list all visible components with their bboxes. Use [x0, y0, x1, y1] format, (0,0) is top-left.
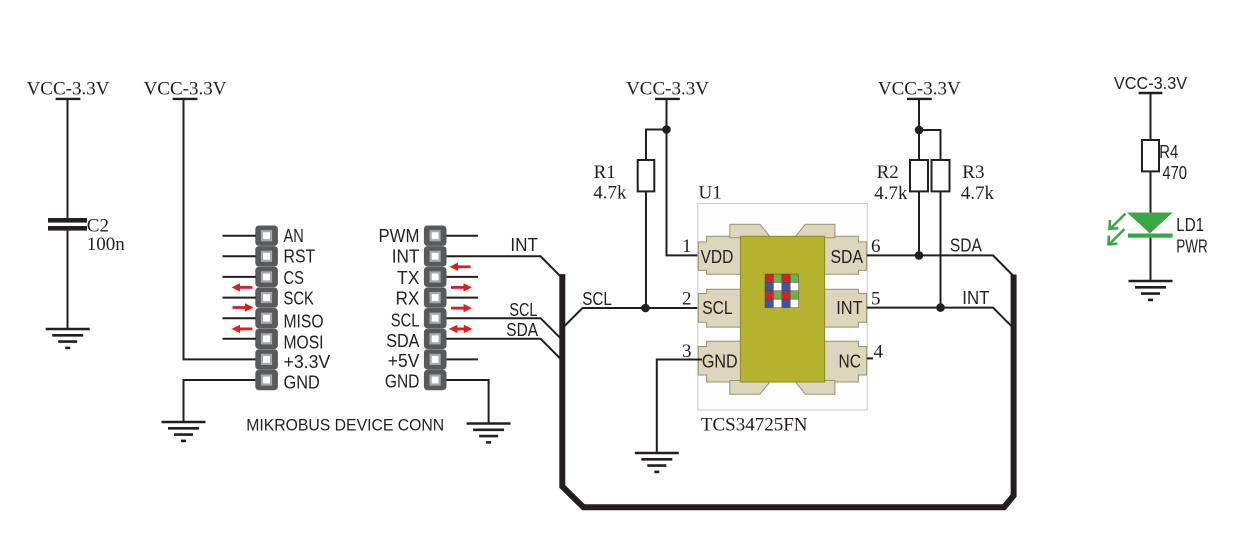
junction R2/SDA [915, 251, 924, 260]
wire R4 to LED [1150, 171, 1152, 212]
svg-text:PWR: PWR [1176, 237, 1208, 257]
svg-text:4.7k: 4.7k [593, 182, 627, 203]
ground (LED) [1129, 281, 1173, 300]
svg-text:MISO: MISO [284, 312, 324, 332]
svg-text:5: 5 [871, 288, 881, 309]
wire VCC down to +3.3V pin [184, 100, 257, 359]
wire R3 to INT line [940, 191, 942, 307]
wire RST stub [223, 255, 257, 257]
wire GND pin to ground [184, 380, 257, 422]
wire SDA chip pin 6 to bus [867, 255, 1014, 276]
wire AN stub [223, 235, 257, 237]
power flag VCC-3.3V (C2 branch) [27, 78, 110, 99]
svg-text:4.7k: 4.7k [961, 183, 995, 204]
ground (C2) [46, 329, 90, 348]
arrow SCK in [232, 283, 253, 291]
ground (header right) [467, 424, 511, 443]
wire NC stub pin 4 [867, 357, 873, 359]
arrow SDA bidir [449, 325, 473, 333]
wire SCK stub [223, 297, 257, 299]
wire SCL bus to chip pin 2 [563, 308, 702, 328]
svg-text:SCL: SCL [582, 289, 612, 309]
resistor R3 4.7k [932, 160, 995, 204]
svg-text:2: 2 [682, 289, 692, 310]
wire CS stub [223, 276, 257, 278]
svg-text:INT: INT [510, 235, 538, 255]
resistor R1 4.7k [593, 160, 654, 203]
svg-text:MOSI: MOSI [284, 333, 324, 353]
wire INT header to bus [447, 256, 564, 279]
svg-text:INT: INT [962, 288, 989, 308]
svg-text:MIKROBUS DEVICE CONN: MIKROBUS DEVICE CONN [246, 415, 444, 434]
svg-text:SCK: SCK [284, 289, 314, 309]
svg-text:VCC-3.3V: VCC-3.3V [626, 78, 709, 99]
arrow MISO out [233, 303, 254, 311]
svg-text:SCL: SCL [702, 298, 732, 318]
svg-text:RST: RST [284, 247, 316, 267]
wire PWM stub [447, 235, 479, 237]
wire VCC down to VDD pin 1 [667, 100, 703, 255]
power flag VCC-3.3V (LED branch) [1114, 73, 1187, 93]
svg-text:GND: GND [702, 351, 738, 371]
wire R2 to SDA line [918, 191, 920, 255]
ground (mikrobus) [162, 422, 206, 441]
svg-text:SDA: SDA [831, 247, 864, 267]
wire TX stub [447, 276, 479, 278]
wire GND header to ground [447, 380, 489, 424]
svg-text:RX: RX [396, 289, 420, 309]
wire R3 branch [919, 130, 941, 160]
arrow RX [451, 304, 472, 312]
svg-text:R4: R4 [1159, 142, 1178, 162]
ground (chip) [635, 453, 679, 472]
svg-text:SDA: SDA [950, 235, 982, 255]
svg-text:+3.3V: +3.3V [284, 352, 331, 372]
svg-text:SCL: SCL [509, 300, 537, 320]
junction VCC/R3 [915, 126, 924, 135]
svg-text:SCL: SCL [391, 311, 420, 331]
wire INT chip pin 5 to bus [867, 308, 1014, 329]
power flag VCC-3.3V (mikrobus branch) [144, 78, 227, 99]
svg-text:1: 1 [682, 236, 692, 257]
resistor R2 4.7k [874, 160, 928, 204]
svg-text:VDD: VDD [701, 247, 734, 267]
svg-text:4.7k: 4.7k [874, 183, 908, 204]
svg-text:TX: TX [397, 268, 419, 288]
svg-text:GND: GND [284, 373, 320, 393]
svg-text:LD1: LD1 [1176, 215, 1204, 235]
svg-text:+5V: +5V [388, 351, 420, 371]
wire MOSI stub [223, 338, 257, 340]
svg-text:VCC-3.3V: VCC-3.3V [144, 78, 227, 99]
wire MISO stub [223, 317, 257, 319]
capacitor C2 100n [48, 216, 125, 256]
svg-text:AN: AN [284, 226, 304, 246]
svg-text:R3: R3 [962, 162, 984, 183]
arrow INT out [450, 263, 471, 271]
svg-text:R2: R2 [877, 162, 899, 183]
svg-text:VCC-3.3V: VCC-3.3V [878, 78, 961, 99]
arrow MOSI in [232, 325, 253, 333]
svg-text:4: 4 [874, 342, 884, 363]
svg-text:470: 470 [1162, 163, 1187, 183]
arrow TX [451, 283, 472, 291]
svg-text:INT: INT [392, 246, 420, 266]
svg-text:CS: CS [284, 268, 304, 288]
wire SDA header to bus [447, 339, 564, 362]
wire LED to ground [1150, 238, 1152, 281]
wire R1 to SCL junction [645, 191, 647, 308]
wire SCL header to bus [447, 318, 564, 341]
LED emission arrows [1109, 214, 1126, 245]
svg-text:SDA: SDA [506, 320, 538, 340]
svg-text:R1: R1 [594, 162, 616, 183]
svg-text:VCC-3.3V: VCC-3.3V [27, 78, 110, 99]
bus thick line (INT/SCL/SDA) [562, 274, 1013, 507]
svg-text:INT: INT [836, 298, 862, 318]
svg-text:GND: GND [385, 372, 420, 392]
wire GND pin 3 to ground [657, 360, 702, 454]
wire VCC to C2 [67, 100, 69, 218]
header mikrobus left column [255, 226, 278, 391]
svg-text:TCS34725FN: TCS34725FN [701, 414, 808, 435]
junction R1/SCL [641, 304, 650, 313]
svg-text:VCC-3.3V: VCC-3.3V [1114, 73, 1187, 93]
power flag VCC-3.3V (R2/R3 branch) [878, 78, 961, 99]
svg-text:U1: U1 [699, 183, 722, 204]
svg-text:NC: NC [839, 351, 861, 371]
svg-text:SDA: SDA [386, 331, 419, 351]
svg-text:PWM: PWM [379, 226, 420, 246]
junction R3/INT [936, 303, 945, 312]
header mikrobus right column [424, 226, 447, 391]
wire VCC to R4 [1150, 94, 1152, 140]
wire +5V stub [447, 358, 479, 360]
junction VCC/R1 [662, 125, 671, 134]
wire R1 branch [646, 130, 667, 161]
wire RX stub [447, 297, 479, 299]
wire VCC down to R2 [918, 100, 920, 160]
svg-text:100n: 100n [87, 234, 126, 255]
power flag VCC-3.3V (R1/VDD branch) [626, 78, 709, 99]
wire C2 to ground [67, 231, 69, 329]
LED LD1 PWR [1127, 213, 1173, 238]
svg-text:6: 6 [871, 236, 881, 257]
resistor R4 470 [1142, 140, 1187, 183]
IC U1 TCS34725FN [698, 204, 867, 411]
color sensor mosaic [765, 274, 799, 308]
